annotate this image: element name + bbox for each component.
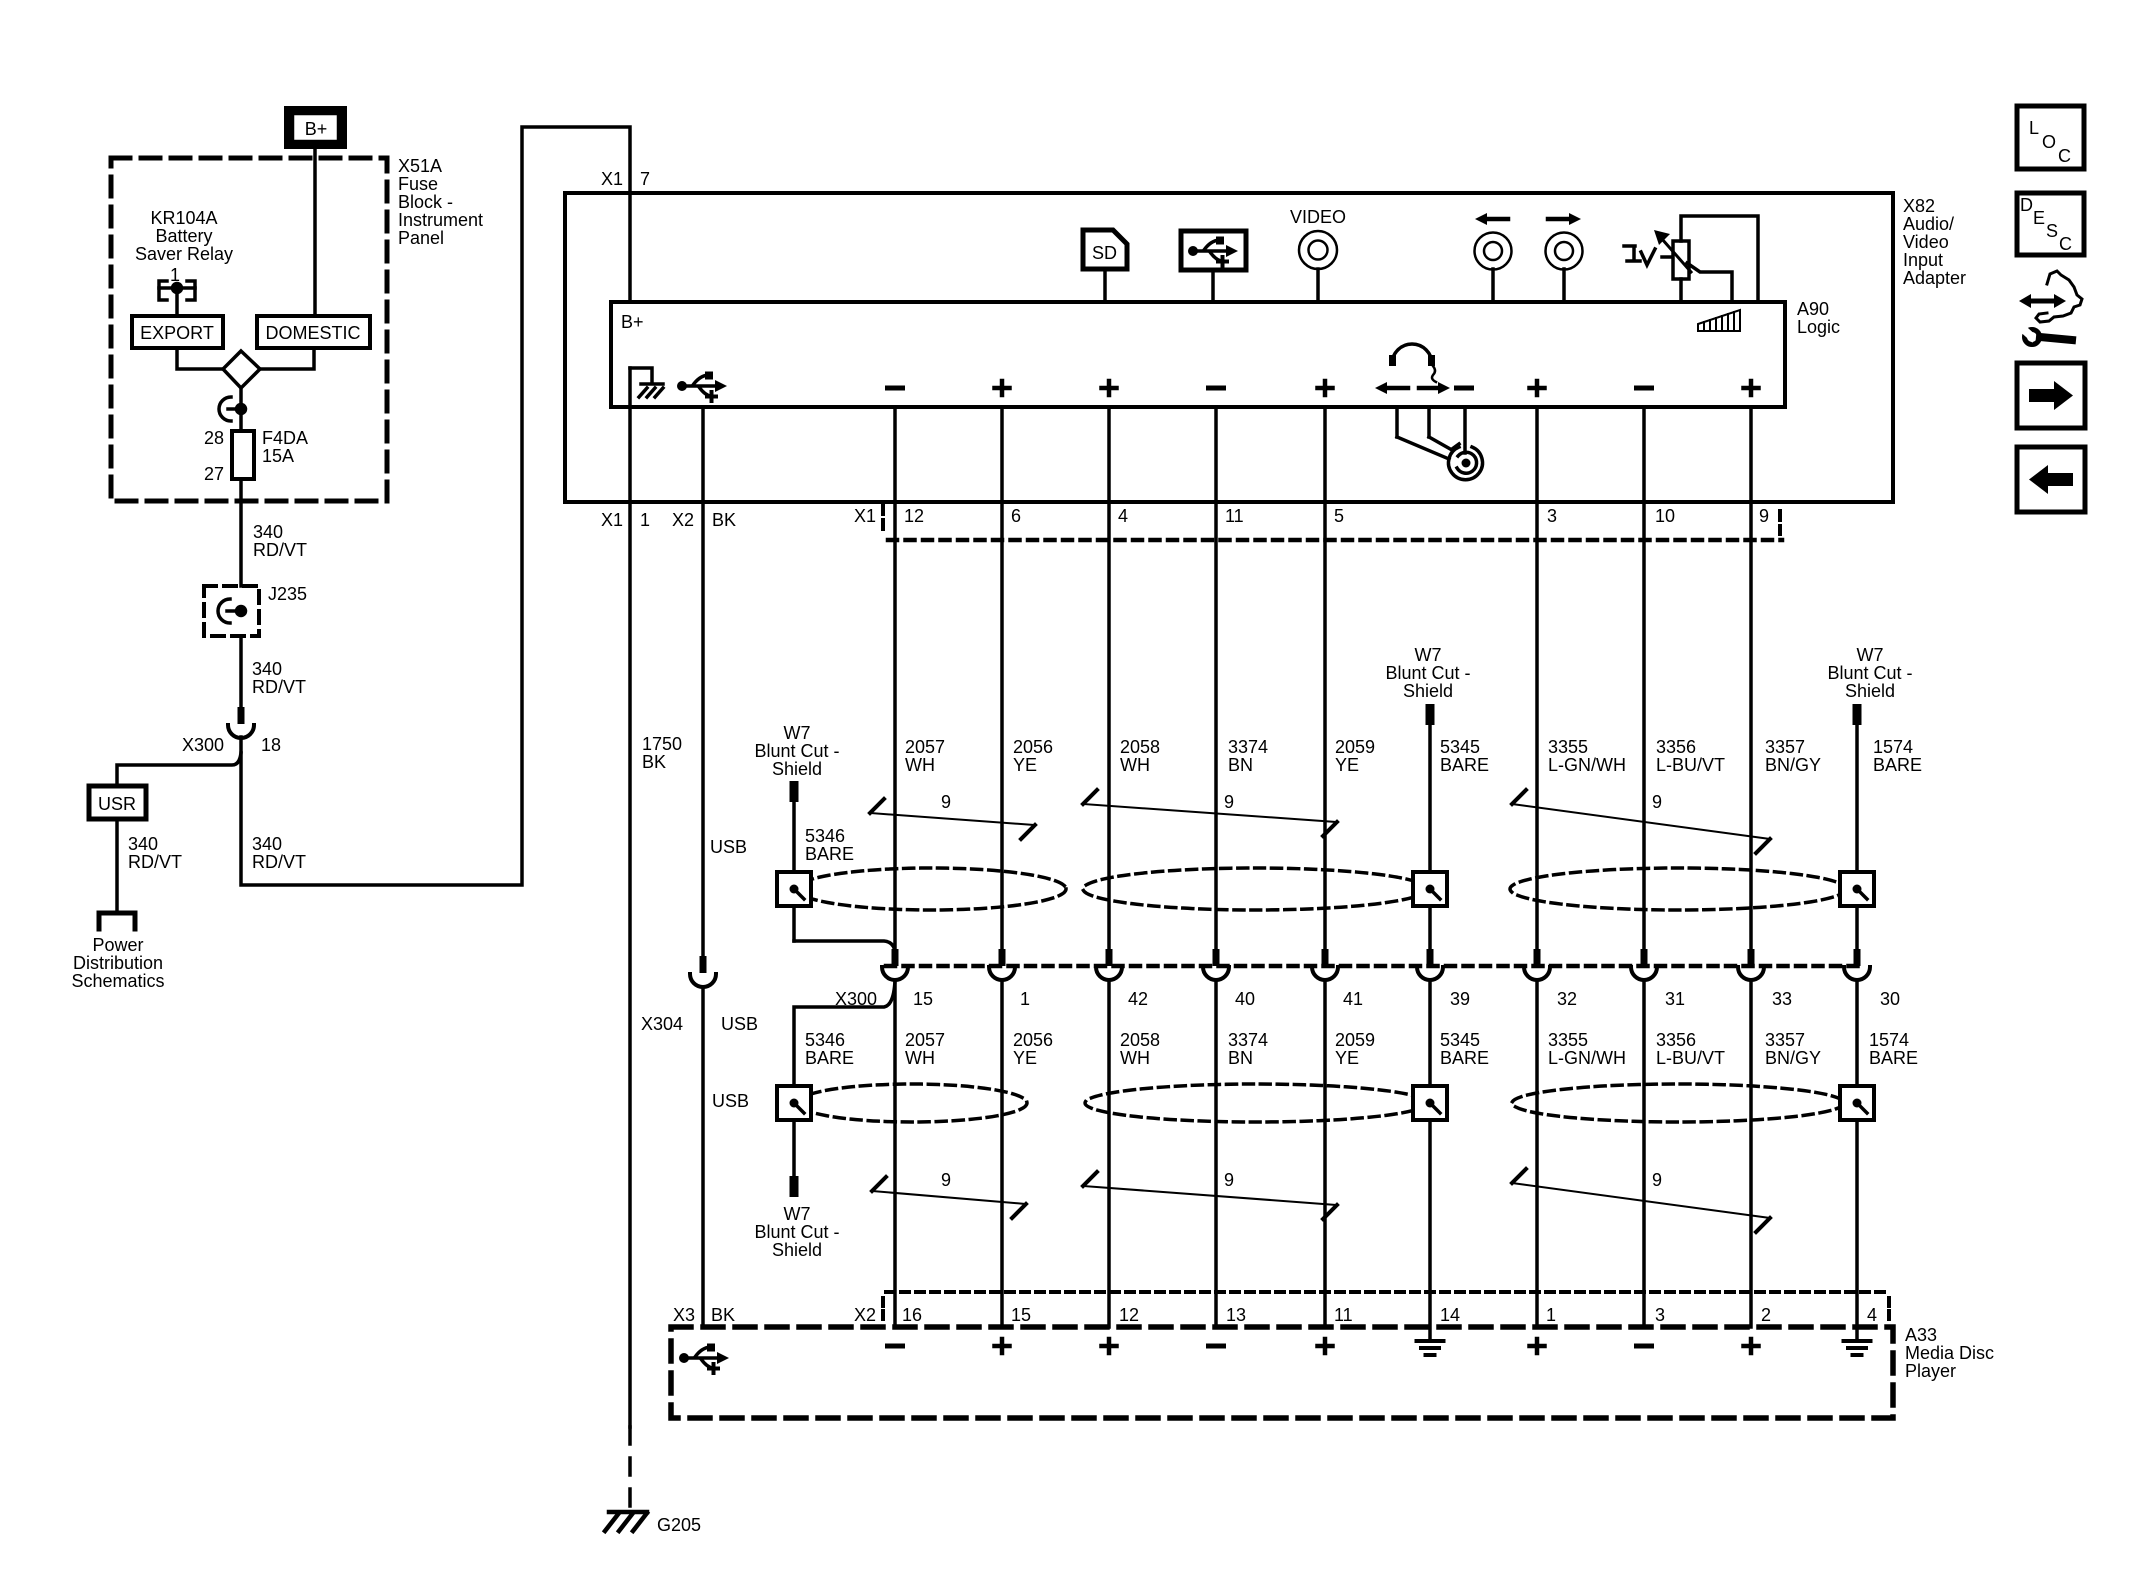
- svg-text:42: 42: [1128, 989, 1148, 1009]
- label W7 Blunt Cut - Shield (5346 upper): [754, 723, 839, 779]
- svg-text:5346: 5346: [805, 1030, 845, 1050]
- labels X2 pin numbers: [902, 1305, 1877, 1325]
- labels X3 BK pins: [673, 1305, 735, 1325]
- svg-text:340: 340: [252, 834, 282, 854]
- wire X300 18 down and around to X82 X1 pin 7, 340 RD/VT: [241, 127, 630, 885]
- relay KR104A contact symbol: [159, 281, 195, 300]
- svg-text:F4DA: F4DA: [262, 428, 308, 448]
- wire X300 32 to A33 1, 3355 L-GN/WH: [1535, 981, 1539, 1327]
- ground G205 chassis symbol: [605, 1512, 647, 1531]
- labels X1 pin numbers: [904, 506, 1769, 526]
- module A90 Logic outline: [611, 302, 1785, 407]
- label X300: [182, 735, 224, 755]
- twisted pair marker 9 (3355/3356/3357 upper): [1512, 790, 1770, 853]
- shield termination box 5346 upper: [777, 872, 811, 906]
- svg-text:3357: 3357: [1765, 737, 1805, 757]
- wire X300 40 to A33 13, 3374 BN: [1214, 981, 1218, 1327]
- label fuse pin 28: [204, 428, 224, 448]
- wire X1 11 to X300 40, 3374 BN: [1214, 502, 1218, 949]
- wire shield drain 5345 BARE upper: [1428, 725, 1432, 949]
- switch / clip symbol with junction dot: [219, 397, 246, 421]
- wire A90 pin to X1 3: [1535, 407, 1539, 502]
- svg-text:33: 33: [1772, 989, 1792, 1009]
- svg-text:1: 1: [640, 510, 650, 530]
- svg-text:G205: G205: [657, 1515, 701, 1535]
- labels circuit 5345 BARE (lower): [1440, 1030, 1489, 1068]
- svg-text:Battery: Battery: [155, 226, 212, 246]
- label A90 Logic: [1797, 299, 1840, 337]
- blunt cut terminal W7 (5346 upper): [790, 781, 799, 802]
- label 340 RD/VT (riser): [252, 834, 306, 872]
- svg-text:340: 340: [128, 834, 158, 854]
- module X82 Audio/Video Input Adapter outline: [565, 193, 1893, 502]
- connector X300 pin 41: [1312, 949, 1363, 1009]
- svg-text:WH: WH: [905, 1048, 935, 1068]
- svg-text:A33: A33: [1905, 1325, 1937, 1345]
- svg-text:C: C: [2058, 146, 2071, 166]
- svg-text:5346: 5346: [805, 826, 845, 846]
- twisted pair marker 9 (2058/3374/2059 lower): [1083, 1170, 1337, 1219]
- shield ellipse (3355/3356/3357 lower): [1512, 1084, 1844, 1122]
- icon USB port: [1181, 231, 1246, 302]
- icon seek arrows inside A90: [1375, 382, 1450, 394]
- svg-text:YE: YE: [1335, 755, 1359, 775]
- connector X300 pin 40: [1203, 949, 1255, 1009]
- svg-text:BK: BK: [642, 752, 666, 772]
- svg-text:O: O: [2042, 132, 2056, 152]
- shield termination box 1574 upper: [1840, 872, 1874, 906]
- icon speaker spiral below A90: [1397, 407, 1483, 480]
- svg-text:4: 4: [1118, 506, 1128, 526]
- connector X300 pin 18: [228, 707, 254, 738]
- svg-text:WH: WH: [1120, 1048, 1150, 1068]
- svg-text:2059: 2059: [1335, 1030, 1375, 1050]
- shield ellipse (3355/3356/3357 upper): [1510, 868, 1846, 910]
- labels circuit 2059 YE (lower): [1335, 1030, 1375, 1068]
- label Power Distribution Schematics: [71, 935, 164, 991]
- labels circuit 2057 WH (upper): [905, 737, 945, 775]
- svg-text:KR104A: KR104A: [150, 208, 217, 228]
- svg-text:10: 10: [1655, 506, 1675, 526]
- svg-text:BK: BK: [712, 510, 736, 530]
- svg-text:BN/GY: BN/GY: [1765, 755, 1821, 775]
- svg-text:Media Disc: Media Disc: [1905, 1343, 1994, 1363]
- svg-text:RD/VT: RD/VT: [252, 677, 306, 697]
- svg-text:3357: 3357: [1765, 1030, 1805, 1050]
- svg-text:9: 9: [1652, 792, 1662, 812]
- blunt cut terminal W7 (1574 upper): [1853, 704, 1862, 725]
- svg-text:7: 7: [640, 169, 650, 189]
- svg-text:2058: 2058: [1120, 737, 1160, 757]
- svg-text:X2: X2: [672, 510, 694, 530]
- svg-text:J235: J235: [268, 584, 307, 604]
- wire shield drain 5346 BARE lower from X300 15: [794, 981, 895, 1176]
- label J235: [268, 584, 307, 604]
- twisted pair marker 9 (2057/2056 upper): [870, 792, 1035, 839]
- labels circuit 2058 WH (upper): [1120, 737, 1160, 775]
- labels X82 bottom pins X1 1 / X2 BK: [601, 510, 736, 530]
- svg-text:L-BU/VT: L-BU/VT: [1656, 1048, 1725, 1068]
- connector X2 dashed bracket line: [883, 1292, 1889, 1321]
- blunt cut terminal W7 (5346 lower): [790, 1176, 799, 1197]
- wire A90 pin to X1 4: [1107, 407, 1111, 502]
- module A33 Media Disc Player dashed outline: [671, 1327, 1893, 1418]
- connector X300 pin 32: [1524, 949, 1577, 1009]
- label 340 RD/VT (USR branch): [128, 834, 182, 872]
- svg-text:340: 340: [253, 522, 283, 542]
- svg-text:X300: X300: [182, 735, 224, 755]
- svg-text:11: 11: [1334, 1305, 1353, 1325]
- svg-text:28: 28: [204, 428, 224, 448]
- connector X300 dashed line: [886, 964, 1859, 969]
- svg-text:Fuse: Fuse: [398, 174, 438, 194]
- label B+ inside A90: [621, 312, 644, 332]
- svg-text:12: 12: [1119, 1305, 1139, 1325]
- connector X300 pin 30: [1844, 949, 1900, 1009]
- wire diamond to switch: [239, 388, 243, 431]
- svg-text:3355: 3355: [1548, 737, 1588, 757]
- label connector X1 pin 7: [601, 169, 650, 189]
- power node B+ (battery feed): [289, 111, 343, 145]
- svg-text:1: 1: [1546, 1305, 1556, 1325]
- svg-text:Shield: Shield: [1403, 681, 1453, 701]
- wire EXPORT to diamond junction: [177, 348, 223, 369]
- svg-text:3: 3: [1547, 506, 1557, 526]
- label 5346 BARE (upper): [805, 826, 854, 864]
- svg-text:X1: X1: [601, 169, 623, 189]
- svg-text:2: 2: [1761, 1305, 1771, 1325]
- svg-text:32: 32: [1557, 989, 1577, 1009]
- pin polarity marks on A90 bottom: [888, 381, 1759, 395]
- wire X1 3 to X300 32, 3355 L-GN/WH: [1535, 502, 1539, 949]
- svg-text:30: 30: [1880, 989, 1900, 1009]
- pin 1 of relay KR104A: [170, 265, 180, 285]
- label 340 RD/VT (below J235): [252, 659, 306, 697]
- nav box next (right arrow): [2017, 363, 2085, 428]
- component EXPORT option box: [132, 316, 223, 348]
- svg-text:W7: W7: [784, 1204, 811, 1224]
- svg-text:Blunt Cut -: Blunt Cut -: [1385, 663, 1470, 683]
- wire X1 9 to X300 33, 3357 BN/GY: [1749, 502, 1753, 949]
- fuse F4DA 15A: [232, 431, 254, 479]
- labels circuit 3356 L-BU/VT (upper): [1656, 737, 1725, 775]
- wire DOMESTIC to diamond junction: [260, 348, 314, 369]
- svg-text:2056: 2056: [1013, 737, 1053, 757]
- label pin 18: [261, 735, 281, 755]
- svg-text:BARE: BARE: [1873, 755, 1922, 775]
- svg-text:40: 40: [1235, 989, 1255, 1009]
- svg-text:6: 6: [1011, 506, 1021, 526]
- svg-text:5: 5: [1334, 506, 1344, 526]
- svg-text:W7: W7: [784, 723, 811, 743]
- wire X300 33 to A33 2, 3357 BN/GY: [1749, 981, 1753, 1327]
- labels circuit 5345 BARE (upper): [1440, 737, 1489, 775]
- blunt cut terminal W7 (5345 upper): [1426, 704, 1435, 725]
- icon VIDEO jack: [1290, 207, 1346, 302]
- svg-text:Saver Relay: Saver Relay: [135, 244, 233, 264]
- fuse block X51A dashed outline: [111, 158, 387, 501]
- shield termination box 5346 lower: [777, 1086, 811, 1120]
- svg-text:2058: 2058: [1120, 1030, 1160, 1050]
- ground symbol at A33 pin 4: [1844, 1341, 1871, 1355]
- wire 1750 BK from X1 1 to X304 region: [628, 502, 632, 1427]
- labels circuit 3355 L-GN/WH (upper): [1548, 737, 1626, 775]
- wire X300 41 to A33 11, 2059 YE: [1323, 981, 1327, 1327]
- twisted pair marker 9 (2057/2056 lower): [872, 1170, 1026, 1218]
- wire USB from X2 BK to X304: [701, 502, 705, 956]
- icon volume ramp inside A90: [1698, 310, 1740, 331]
- nav box back (left arrow): [2017, 447, 2085, 512]
- svg-text:VIDEO: VIDEO: [1290, 207, 1346, 227]
- wire fuse to J235, 340 RD/VT: [239, 479, 243, 586]
- wire X300 30 to A33 4, 1574 BARE: [1855, 981, 1859, 1339]
- icon audio right jack with arrow: [1546, 213, 1583, 302]
- svg-text:27: 27: [204, 464, 224, 484]
- svg-text:Blunt Cut -: Blunt Cut -: [1827, 663, 1912, 683]
- component DOMESTIC option box: [257, 316, 370, 348]
- wire 1750 BK dashed section to G205: [628, 1427, 632, 1508]
- svg-text:BARE: BARE: [805, 1048, 854, 1068]
- label USB at X304: [721, 1014, 758, 1034]
- svg-text:41: 41: [1343, 989, 1363, 1009]
- labels circuit 2059 YE (upper): [1335, 737, 1375, 775]
- svg-text:3374: 3374: [1228, 737, 1268, 757]
- svg-text:C: C: [2059, 234, 2072, 254]
- diamond option-select junction: [223, 351, 260, 388]
- labels circuit 1574 BARE (lower): [1869, 1030, 1918, 1068]
- svg-text:15: 15: [913, 989, 933, 1009]
- svg-text:B+: B+: [305, 119, 328, 139]
- label W7 Blunt Cut - Shield (5345 upper): [1385, 645, 1470, 701]
- shield ellipse (2058/3374/2059 lower): [1085, 1084, 1427, 1122]
- svg-text:Shield: Shield: [772, 759, 822, 779]
- svg-text:Shield: Shield: [1845, 681, 1895, 701]
- icon audio left jack with arrow: [1475, 213, 1512, 302]
- label X304: [641, 1014, 683, 1034]
- svg-text:X3: X3: [673, 1305, 695, 1325]
- svg-text:L: L: [2029, 118, 2039, 138]
- connector X300 pin 33: [1738, 949, 1792, 1009]
- label G205: [657, 1515, 701, 1535]
- labels circuit 2057 WH (lower): [905, 1030, 945, 1068]
- nav box DESC: [2017, 193, 2084, 255]
- svg-text:BARE: BARE: [805, 844, 854, 864]
- svg-text:Power: Power: [92, 935, 143, 955]
- svg-text:BK: BK: [711, 1305, 735, 1325]
- svg-text:EXPORT: EXPORT: [140, 323, 214, 343]
- svg-text:WH: WH: [905, 755, 935, 775]
- label X82 Audio/Video Input Adapter: [1903, 196, 1966, 288]
- svg-text:L-BU/VT: L-BU/VT: [1656, 755, 1725, 775]
- icon tv brightness potentiometer: [1624, 216, 1758, 302]
- labels circuit 2056 YE (upper): [1013, 737, 1053, 775]
- svg-text:15A: 15A: [262, 446, 294, 466]
- wire X300 39 to A33 14, 5345 BARE: [1428, 981, 1432, 1339]
- wire A90 USB to X2 pin BK: [701, 407, 705, 502]
- svg-text:Blunt Cut -: Blunt Cut -: [754, 1222, 839, 1242]
- wire shield drain 1574 BARE upper: [1855, 725, 1859, 949]
- connector X300 pin 39: [1417, 949, 1470, 1009]
- svg-text:1574: 1574: [1869, 1030, 1909, 1050]
- connector X300 pin 15: [882, 949, 933, 1009]
- svg-text:2057: 2057: [905, 737, 945, 757]
- svg-text:18: 18: [261, 735, 281, 755]
- svg-text:BARE: BARE: [1869, 1048, 1918, 1068]
- shield ellipse (2057/2056 upper): [796, 868, 1066, 910]
- twisted pair marker 9 (2058/3374/2059 upper): [1083, 790, 1337, 836]
- svg-text:3356: 3356: [1656, 737, 1696, 757]
- svg-text:BN/GY: BN/GY: [1765, 1048, 1821, 1068]
- svg-text:3356: 3356: [1656, 1030, 1696, 1050]
- svg-text:2056: 2056: [1013, 1030, 1053, 1050]
- svg-text:1750: 1750: [642, 734, 682, 754]
- svg-text:11: 11: [1225, 506, 1244, 526]
- svg-text:BARE: BARE: [1440, 1048, 1489, 1068]
- component USR fuse box: [89, 786, 146, 819]
- wire relay to EXPORT: [175, 288, 179, 316]
- svg-text:X304: X304: [641, 1014, 683, 1034]
- svg-text:BN: BN: [1228, 1048, 1253, 1068]
- svg-text:13: 13: [1226, 1305, 1246, 1325]
- wire A90 pin to X1 5: [1323, 407, 1327, 502]
- svg-text:L-GN/WH: L-GN/WH: [1548, 755, 1626, 775]
- svg-text:2059: 2059: [1335, 737, 1375, 757]
- twisted pair marker 9 (3355/3356/3357 lower): [1512, 1169, 1770, 1232]
- icon USB inside A33: [679, 1344, 729, 1374]
- svg-text:W7: W7: [1857, 645, 1884, 665]
- labels circuit 3357 BN/GY (upper): [1765, 737, 1821, 775]
- wire A90 pin to X1 6: [1000, 407, 1004, 502]
- labels circuit 3356 L-BU/VT (lower): [1656, 1030, 1725, 1068]
- svg-text:RD/VT: RD/VT: [252, 852, 306, 872]
- svg-text:E: E: [2033, 208, 2045, 228]
- svg-text:Panel: Panel: [398, 228, 444, 248]
- connector X300 pin 42: [1096, 949, 1148, 1009]
- svg-text:RD/VT: RD/VT: [128, 852, 182, 872]
- label fuse pin 27: [204, 464, 224, 484]
- icon SD card slot: [1083, 230, 1127, 302]
- label X300: [835, 989, 877, 1009]
- wire A90 pin to X1 10: [1642, 407, 1646, 502]
- wire A90 B+ return to X1 pin 1: [628, 368, 632, 502]
- svg-text:3374: 3374: [1228, 1030, 1268, 1050]
- label 5346 BARE (lower): [805, 1030, 854, 1068]
- wire J235 to X300 pin 18, 340 RD/VT: [239, 636, 243, 707]
- svg-text:Instrument: Instrument: [398, 210, 483, 230]
- svg-text:Adapter: Adapter: [1903, 268, 1966, 288]
- label 340 RD/VT (fuse output): [253, 522, 307, 560]
- svg-text:USB: USB: [712, 1091, 749, 1111]
- svg-text:YE: YE: [1013, 1048, 1037, 1068]
- svg-text:D: D: [2020, 195, 2033, 215]
- svg-text:Blunt Cut -: Blunt Cut -: [754, 741, 839, 761]
- label A33 Media Disc Player: [1905, 1325, 1994, 1381]
- icon headphones inside A90: [1389, 344, 1436, 382]
- svg-text:31: 31: [1665, 989, 1685, 1009]
- label X51A Fuse Block - Instrument Panel: [398, 156, 483, 248]
- wire shield drain 5346 BARE upper: [794, 802, 895, 952]
- svg-text:14: 14: [1440, 1305, 1460, 1325]
- svg-text:X51A: X51A: [398, 156, 442, 176]
- icon USB inside A90: [677, 372, 727, 402]
- svg-text:Schematics: Schematics: [71, 971, 164, 991]
- svg-text:9: 9: [941, 792, 951, 812]
- connector X300 pin 31: [1631, 949, 1685, 1009]
- svg-text:Player: Player: [1905, 1361, 1956, 1381]
- pin polarity marks inside A33: [888, 1339, 1759, 1353]
- svg-text:X1: X1: [854, 506, 876, 526]
- wire X1 10 to X300 31, 3356 L-BU/VT: [1642, 502, 1646, 949]
- connector X300 pin 1: [989, 949, 1030, 1009]
- svg-text:B+: B+: [621, 312, 644, 332]
- svg-text:Logic: Logic: [1797, 317, 1840, 337]
- svg-text:3355: 3355: [1548, 1030, 1588, 1050]
- labels circuit 2058 WH (lower): [1120, 1030, 1160, 1068]
- shield ellipse (2058/3374/2059 upper): [1083, 868, 1427, 910]
- svg-text:USB: USB: [710, 837, 747, 857]
- wire X300 1 to A33 15, 2056 YE: [1000, 981, 1004, 1327]
- svg-text:W7: W7: [1415, 645, 1442, 665]
- svg-text:L-GN/WH: L-GN/WH: [1548, 1048, 1626, 1068]
- label X2: [854, 1305, 876, 1325]
- wire X300 31 to A33 3, 3356 L-BU/VT: [1642, 981, 1646, 1327]
- shield termination box 5345 lower: [1413, 1086, 1447, 1120]
- svg-text:16: 16: [902, 1305, 922, 1325]
- label USB (upper): [710, 837, 747, 857]
- svg-text:S: S: [2046, 221, 2058, 241]
- label F4DA 15A: [262, 428, 308, 466]
- svg-text:Video: Video: [1903, 232, 1949, 252]
- svg-text:9: 9: [1759, 506, 1769, 526]
- wire X1 12 to X300 15, 2057 WH: [893, 502, 897, 949]
- ground bracket inside A90 (chassis ground): [630, 368, 663, 397]
- ground symbol at A33 pin 14: [1417, 1341, 1444, 1355]
- svg-text:2057: 2057: [905, 1030, 945, 1050]
- svg-text:BARE: BARE: [1440, 755, 1489, 775]
- connector X1 dashed bracket: [854, 505, 1782, 540]
- wire B+ to DOMESTIC: [313, 149, 317, 316]
- nav box LOC: [2017, 106, 2084, 169]
- svg-text:RD/VT: RD/VT: [253, 540, 307, 560]
- labels circuit 3374 BN (lower): [1228, 1030, 1268, 1068]
- svg-text:5345: 5345: [1440, 737, 1480, 757]
- svg-text:USB: USB: [721, 1014, 758, 1034]
- wire X1 4 to X300 42, 2058 WH: [1107, 502, 1111, 949]
- svg-text:39: 39: [1450, 989, 1470, 1009]
- label W7 Blunt Cut - Shield (1574 upper): [1827, 645, 1912, 701]
- svg-text:Input: Input: [1903, 250, 1943, 270]
- wire X300 42 to A33 12, 2058 WH: [1107, 981, 1111, 1327]
- svg-text:YE: YE: [1013, 755, 1037, 775]
- svg-text:4: 4: [1867, 1305, 1877, 1325]
- svg-text:1: 1: [1020, 989, 1030, 1009]
- svg-text:YE: YE: [1335, 1048, 1359, 1068]
- labels circuit 1574 BARE (upper): [1873, 737, 1922, 775]
- wire USB X304 to A33 X3 BK: [701, 988, 705, 1327]
- labels circuit 3374 BN (upper): [1228, 737, 1268, 775]
- label W7 Blunt Cut - Shield (5346 lower): [754, 1204, 839, 1260]
- shield termination box 5345 upper: [1413, 872, 1447, 906]
- label 1750 BK: [642, 734, 682, 772]
- svg-text:9: 9: [1224, 1170, 1234, 1190]
- wire X1 7 to A90 B+ input: [628, 193, 632, 302]
- wire A90 pin to X1 11: [1214, 407, 1218, 502]
- svg-text:X2: X2: [854, 1305, 876, 1325]
- svg-text:SD: SD: [1092, 243, 1117, 263]
- svg-text:340: 340: [252, 659, 282, 679]
- svg-text:X1: X1: [601, 510, 623, 530]
- splice J235 dashed box: [204, 586, 259, 636]
